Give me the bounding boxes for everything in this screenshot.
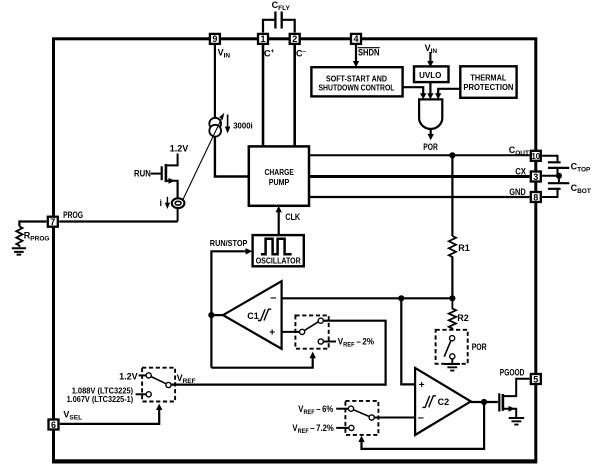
svg-text:1.2V: 1.2V xyxy=(119,371,138,381)
wire PROG from pin 7 to transistor drain xyxy=(59,220,177,222)
svg-text:3000i: 3000i xyxy=(233,122,253,131)
soft-start box xyxy=(311,67,402,96)
svg-text:+: + xyxy=(269,327,275,338)
wire soft-start to AND gate xyxy=(403,87,424,93)
svg-text:SHDN: SHDN xyxy=(358,47,380,57)
arrow SHDN into soft-start box xyxy=(355,45,357,62)
svg-text:RUN/STOP: RUN/STOP xyxy=(210,238,248,248)
arrow i current direction xyxy=(166,197,168,204)
svg-text:R1: R1 xyxy=(458,243,470,253)
node C2 output junction xyxy=(481,399,487,405)
wire VREF-6% lead xyxy=(336,408,348,410)
transistor RUN (PMOS) xyxy=(166,154,178,166)
svg-text:1.2V: 1.2V xyxy=(170,144,189,154)
capacitor CFLY plates xyxy=(275,12,281,29)
svg-text:SHUTDOWN CONTROL: SHUTDOWN CONTROL xyxy=(319,84,395,93)
wire mirror link (thin diagonal from sense loop, arrow through source) xyxy=(183,119,221,199)
wire C2 minus input xyxy=(374,417,415,419)
wire VREF-7.2% lead xyxy=(336,427,348,429)
wire COUT line xyxy=(309,154,530,156)
svg-text:6: 6 xyxy=(51,420,56,430)
ground below POR switch xyxy=(451,359,453,364)
pin 4 xyxy=(351,34,361,44)
node junction divider to C1 xyxy=(449,295,455,301)
svg-text:+: + xyxy=(419,380,425,391)
wire current source to charge pump VIN input xyxy=(215,136,249,177)
resistor RPROG xyxy=(16,226,22,247)
wire C2 output to PGOOD gate xyxy=(471,401,498,403)
arrow VIN into UVLO xyxy=(429,52,431,62)
pin 5 xyxy=(531,374,541,384)
transistor PGOOD (NMOS) xyxy=(498,393,500,411)
ground below RPROG xyxy=(12,248,26,254)
svg-text:PROG: PROG xyxy=(63,210,83,220)
capacitor CBOT plates xyxy=(548,183,569,189)
switch dashed box at C2 minus input xyxy=(345,401,378,435)
svg-text:8: 8 xyxy=(533,192,538,202)
comparator C1 (points left) xyxy=(223,281,282,349)
svg-text:RUN: RUN xyxy=(134,169,151,179)
wire CLK oscillator to charge pump xyxy=(278,212,280,235)
svg-text:–: – xyxy=(418,412,424,424)
wire CFLY left lead xyxy=(263,20,274,33)
svg-text:1.067V (LTC3225-1): 1.067V (LTC3225-1) xyxy=(67,395,134,404)
wire 1.088V lead xyxy=(136,393,146,395)
pin 8 xyxy=(531,192,541,202)
svg-text:SOFT-START AND: SOFT-START AND xyxy=(326,74,387,83)
wire C2 feedback to switch xyxy=(362,402,485,449)
wire pin 2 down to charge pump xyxy=(293,45,296,147)
oscillator box xyxy=(253,235,304,266)
ground below PGOOD transistor xyxy=(509,418,524,425)
charge pump box xyxy=(249,146,309,205)
svg-text:CLK: CLK xyxy=(285,212,300,222)
wire R1 to divider node xyxy=(451,257,453,298)
IC outline border xyxy=(54,39,536,461)
svg-text:i: i xyxy=(160,198,163,208)
svg-text:–: – xyxy=(270,292,276,304)
wire R1 branch from COUT line xyxy=(451,155,453,236)
wire GND line xyxy=(309,196,530,198)
switch dashed box VREF select xyxy=(142,368,175,402)
pin 7 xyxy=(48,217,58,227)
pin 9 xyxy=(210,34,220,44)
svg-text:5: 5 xyxy=(533,374,538,384)
wire 1.2V lead xyxy=(139,374,146,376)
wire pin 10 to CTOP xyxy=(542,156,557,161)
svg-text:CHARGE: CHARGE xyxy=(265,168,295,177)
wire VREF-2% lead xyxy=(323,341,336,343)
thermal protection box xyxy=(460,66,516,98)
overline of SHDN xyxy=(358,47,380,49)
comparator C2 (points right) xyxy=(415,368,471,435)
resistor R1 xyxy=(449,236,456,257)
svg-text:9: 9 xyxy=(212,34,217,44)
svg-text:THERMAL: THERMAL xyxy=(470,74,506,83)
svg-text:UVLO: UVLO xyxy=(419,71,441,80)
wire RPROG lead xyxy=(19,222,46,227)
wire pin 8 to CBOT xyxy=(542,190,557,197)
clock waveform symbol xyxy=(261,239,292,255)
pin 2 xyxy=(290,34,300,44)
wire UVLO to AND gate xyxy=(429,83,431,94)
node junction COUT/R1 xyxy=(449,152,455,158)
svg-text:POR: POR xyxy=(472,342,487,352)
wire C1 feedback to switch xyxy=(211,358,312,368)
AND gate xyxy=(419,99,442,129)
wire divider node to C1 minus input xyxy=(282,297,453,299)
pin 6 xyxy=(49,420,59,430)
wire VSEL from pin 6 to switch xyxy=(60,410,159,424)
svg-text:POR: POR xyxy=(423,142,438,152)
wire C2 plus branch xyxy=(401,298,415,384)
svg-text:4: 4 xyxy=(353,34,358,44)
svg-text:C2: C2 xyxy=(438,397,450,407)
wire CTOP to CX node xyxy=(557,169,559,176)
wire RUN/STOP into oscillator xyxy=(211,251,245,367)
svg-text:3: 3 xyxy=(533,172,538,182)
capacitor CTOP plates xyxy=(548,162,569,168)
current sense loop i xyxy=(177,181,179,222)
wire pin 3 to node xyxy=(542,175,559,177)
wire VIN vertical from pin 9 to current source xyxy=(214,45,216,117)
pin 1 xyxy=(258,34,268,44)
arrow POR output of AND gate xyxy=(430,129,432,134)
wire C1 output xyxy=(211,314,223,316)
hysteresis symbol C2 xyxy=(422,396,436,408)
wire pin 1 down to charge pump xyxy=(262,45,265,147)
arrow 3000i current direction xyxy=(227,115,229,128)
svg-text:7: 7 xyxy=(50,217,55,227)
pin 10 xyxy=(531,151,541,161)
svg-text:10: 10 xyxy=(532,151,541,161)
svg-text:OSCILLATOR: OSCILLATOR xyxy=(256,256,301,265)
svg-text:GND: GND xyxy=(509,187,526,197)
node C1 output junction xyxy=(208,312,214,318)
svg-text:R2: R2 xyxy=(457,313,469,323)
svg-text:2: 2 xyxy=(292,34,297,44)
svg-text:PUMP: PUMP xyxy=(269,178,290,187)
wire thermal protection to AND gate xyxy=(438,89,460,94)
current source 3000i (mirror output) xyxy=(209,118,221,130)
wire CFLY right lead xyxy=(283,20,295,33)
switch POR dashed box xyxy=(436,330,468,364)
wire CX line (thick) xyxy=(309,175,530,178)
svg-text:CX: CX xyxy=(515,166,526,176)
svg-text:C1: C1 xyxy=(247,311,259,321)
node junction CX cap xyxy=(556,173,562,179)
switch dashed box at C1 plus input xyxy=(295,315,328,348)
UVLO box xyxy=(414,66,449,82)
hysteresis symbol C1 xyxy=(258,309,271,320)
svg-text:1: 1 xyxy=(260,34,265,44)
svg-text:PGOOD: PGOOD xyxy=(500,368,525,378)
wire C1 plus input to switch common xyxy=(282,331,300,333)
wire node to CBOT xyxy=(558,176,560,182)
svg-text:PROTECTION: PROTECTION xyxy=(463,83,513,92)
resistor R2 xyxy=(449,298,456,330)
node junction C2 plus branch xyxy=(398,295,404,301)
pin 3 xyxy=(531,172,541,182)
wire switch to VREF rail xyxy=(171,321,385,385)
